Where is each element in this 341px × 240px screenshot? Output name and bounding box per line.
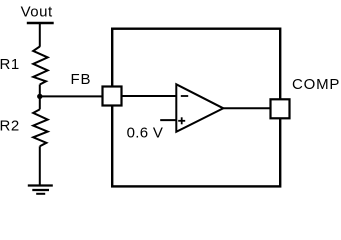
ground <box>28 186 53 194</box>
svg-text:FB: FB <box>71 71 92 88</box>
IC block U1 <box>112 29 280 187</box>
wire op-amp output to COMP pin <box>223 107 270 109</box>
node FB junction dot <box>37 94 42 99</box>
op-amp U1 error amplifier <box>176 84 223 132</box>
svg-text:COMP: COMP <box>292 76 340 93</box>
pin FB <box>103 87 122 106</box>
wire FB pin to op-amp inverting input <box>122 95 177 97</box>
op-amp non-inverting input plus sign <box>178 117 185 124</box>
terminal Vout bar <box>27 22 54 24</box>
pin COMP <box>271 99 290 118</box>
wire node to FB pin <box>40 95 104 97</box>
wire node to R2 <box>39 96 41 109</box>
svg-text:R2: R2 <box>0 118 20 135</box>
op-amp inverting input minus sign <box>181 95 188 97</box>
resistor R2 <box>33 109 48 146</box>
wire R2 to ground <box>39 146 41 185</box>
wire 0.6 V reference to op-amp non-inverting input <box>160 119 176 121</box>
svg-text:Vout: Vout <box>21 4 53 21</box>
wire R1 to node FB <box>39 85 41 97</box>
wire Vout to R1 <box>39 23 41 47</box>
svg-text:R1: R1 <box>0 56 20 73</box>
resistor R1 <box>33 47 48 85</box>
svg-text:0.6 V: 0.6 V <box>127 125 164 142</box>
